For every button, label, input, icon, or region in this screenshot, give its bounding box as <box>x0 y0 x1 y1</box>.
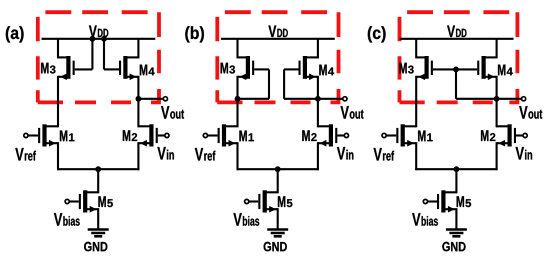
wire M3 drain to M1 drain (c) <box>415 76 417 128</box>
wire Vbias gate lead (c) <box>428 200 438 202</box>
wire Vref gate lead (c) <box>386 134 396 136</box>
wire M2 source to tail (a) <box>137 142 139 170</box>
transistor M1 (c) <box>396 124 416 146</box>
label Vin (b) <box>337 147 354 160</box>
label Vref (a) <box>15 148 36 161</box>
wire M3 gate to M3 drain (diode) (b) <box>238 69 270 98</box>
terminal Vout (b) <box>343 97 347 101</box>
wire M3 gate to VDD (a) <box>75 39 93 70</box>
terminal Vout (a) <box>163 97 167 101</box>
wire tail to M5 drain (c) <box>455 169 457 193</box>
wire tail to M5 drain (b) <box>277 169 279 193</box>
label Vbias (a) <box>54 213 80 226</box>
transistor M5 (c) <box>437 190 457 212</box>
junction output node (a) <box>136 96 142 102</box>
label M5 (c) <box>457 196 472 207</box>
label GND (c) <box>442 242 465 252</box>
label M4 (a) <box>140 65 155 76</box>
terminal Vin (b) <box>344 133 348 137</box>
transistor M1 (a) <box>38 124 58 146</box>
wire tail node (a) <box>57 168 139 170</box>
wire M1 source to tail (b) <box>236 142 238 170</box>
junction tail (a) <box>95 166 101 172</box>
panel label (b) <box>185 26 204 42</box>
wire M5 source to ground (b) <box>277 208 279 229</box>
wire M3 source to VDD (c) <box>415 39 417 59</box>
wire tail node (b) <box>237 168 319 170</box>
transistor M5 (a) <box>79 190 99 212</box>
wire M4 gate to M4 drain (diode) (b) <box>284 69 318 98</box>
wire to Vout terminal (a) <box>138 98 163 100</box>
wire Vref gate lead (a) <box>28 134 38 136</box>
wire Vin gate lead (a) <box>158 134 165 136</box>
junction M3 gate-drain (b) <box>235 96 241 102</box>
wire to Vout terminal (b) <box>318 98 343 100</box>
wire Vref gate lead (b) <box>208 134 218 136</box>
wire M1 source to tail (c) <box>415 142 417 170</box>
label M3 (c) <box>399 63 413 74</box>
wire tail to M5 drain (a) <box>97 169 99 193</box>
net label VDD (a) <box>89 26 108 38</box>
label M4 (b) <box>319 65 334 76</box>
wire Vin gate lead (b) <box>337 134 344 136</box>
wire VDD rail (b) <box>221 38 335 40</box>
wire M5 source to ground (c) <box>455 208 457 229</box>
wire to Vout terminal (c) <box>497 98 522 100</box>
wire M4 source to VDD (c) <box>496 39 498 59</box>
wire tail node (c) <box>415 168 497 170</box>
label M5 (a) <box>98 196 113 207</box>
transistor M2 (a) <box>138 124 158 146</box>
junction gate tie (c) <box>453 67 459 73</box>
terminal Vbias (a) <box>65 199 69 203</box>
terminal Vin (c) <box>523 133 527 137</box>
wire M4 drain to M2 drain (c) <box>496 76 498 128</box>
net label VDD (b) <box>268 26 287 38</box>
transistor M1 (b) <box>218 124 238 146</box>
label Vout (b) <box>341 106 364 119</box>
label Vbias (b) <box>233 213 259 226</box>
transistor M2 (c) <box>496 124 516 146</box>
red dashed highlight box (b) <box>217 12 338 102</box>
terminal Vref (a) <box>24 133 28 137</box>
wire M3 source to VDD (b) <box>236 39 238 59</box>
junction tail (c) <box>454 166 460 172</box>
terminal Vin (a) <box>165 133 169 137</box>
label M2 (a) <box>123 130 137 141</box>
panel label (c) <box>368 26 386 42</box>
ground symbol (a) <box>88 230 109 237</box>
label M1 (b) <box>239 131 254 142</box>
label Vref (c) <box>374 148 395 161</box>
terminal Vbias (b) <box>245 199 249 203</box>
transistor M2 (b) <box>318 124 338 146</box>
label M2 (b) <box>302 130 316 141</box>
wire M4 drain to M2 drain (a) <box>137 76 139 128</box>
wire Vin gate lead (c) <box>516 134 523 136</box>
transistor M3 (c) <box>416 56 433 80</box>
label Vbias (c) <box>412 213 438 226</box>
label M4 (c) <box>498 65 513 76</box>
wire M2 source to tail (c) <box>496 142 498 170</box>
label Vout (a) <box>161 106 184 119</box>
wire M3 source to VDD (a) <box>57 39 59 59</box>
wire Vbias gate lead (a) <box>69 200 79 202</box>
wire M4 source to VDD (b) <box>317 39 319 59</box>
label Vref (b) <box>195 148 216 161</box>
wire M4 source to VDD (a) <box>137 39 139 59</box>
label M1 (a) <box>60 131 75 142</box>
wire M5 source to ground (a) <box>97 208 99 229</box>
panel label (a) <box>6 26 24 42</box>
terminal Vout (c) <box>522 97 526 101</box>
junction tail (b) <box>275 166 281 172</box>
wire M1 source to tail (a) <box>57 142 59 170</box>
wire M3 drain to M1 drain (a) <box>57 76 59 128</box>
label M2 (c) <box>481 130 495 141</box>
red dashed highlight box (c) <box>400 12 518 102</box>
label Vin (c) <box>516 147 533 160</box>
ground symbol (b) <box>267 230 288 237</box>
label Vout (c) <box>519 106 542 119</box>
transistor M4 (a) <box>119 56 138 80</box>
wire M4 gate to VDD (a) <box>104 39 119 70</box>
junction M3-gate/VDD (a) <box>90 36 96 42</box>
wire VDD rail (a) <box>42 38 156 40</box>
transistor M3 (a) <box>58 56 75 80</box>
wire M2 source to tail (b) <box>317 142 319 170</box>
net label VDD (c) <box>447 26 466 38</box>
transistor M4 (b) <box>299 56 318 80</box>
label M5 (b) <box>278 196 293 207</box>
label M1 (c) <box>418 131 433 142</box>
wire M3 drain to M1 drain (b) <box>236 76 238 128</box>
label GND (a) <box>84 242 107 252</box>
red dashed highlight box (a) <box>38 12 159 102</box>
transistor M4 (c) <box>477 56 496 80</box>
terminal Vref (b) <box>203 133 207 137</box>
wire Vbias gate lead (b) <box>249 200 258 202</box>
label GND (b) <box>264 242 287 252</box>
transistor M5 (b) <box>258 190 278 212</box>
label Vin (a) <box>157 147 174 160</box>
label M3 (b) <box>221 63 235 74</box>
terminal Vbias (c) <box>423 199 427 203</box>
transistor M3 (b) <box>238 56 255 80</box>
wire gate tie to output node (c) <box>456 69 497 98</box>
junction M4-gate/VDD (a) <box>101 36 107 42</box>
junction output node (c) <box>494 96 500 102</box>
wire VDD rail (c) <box>400 38 514 40</box>
wire M4 drain to M2 drain (b) <box>317 76 319 128</box>
junction output node (b) <box>315 96 321 102</box>
ground symbol (c) <box>446 230 467 237</box>
label M3 (a) <box>41 63 55 74</box>
terminal Vref (c) <box>382 133 386 137</box>
wire M3 gate to M4 gate (c) <box>433 68 477 70</box>
